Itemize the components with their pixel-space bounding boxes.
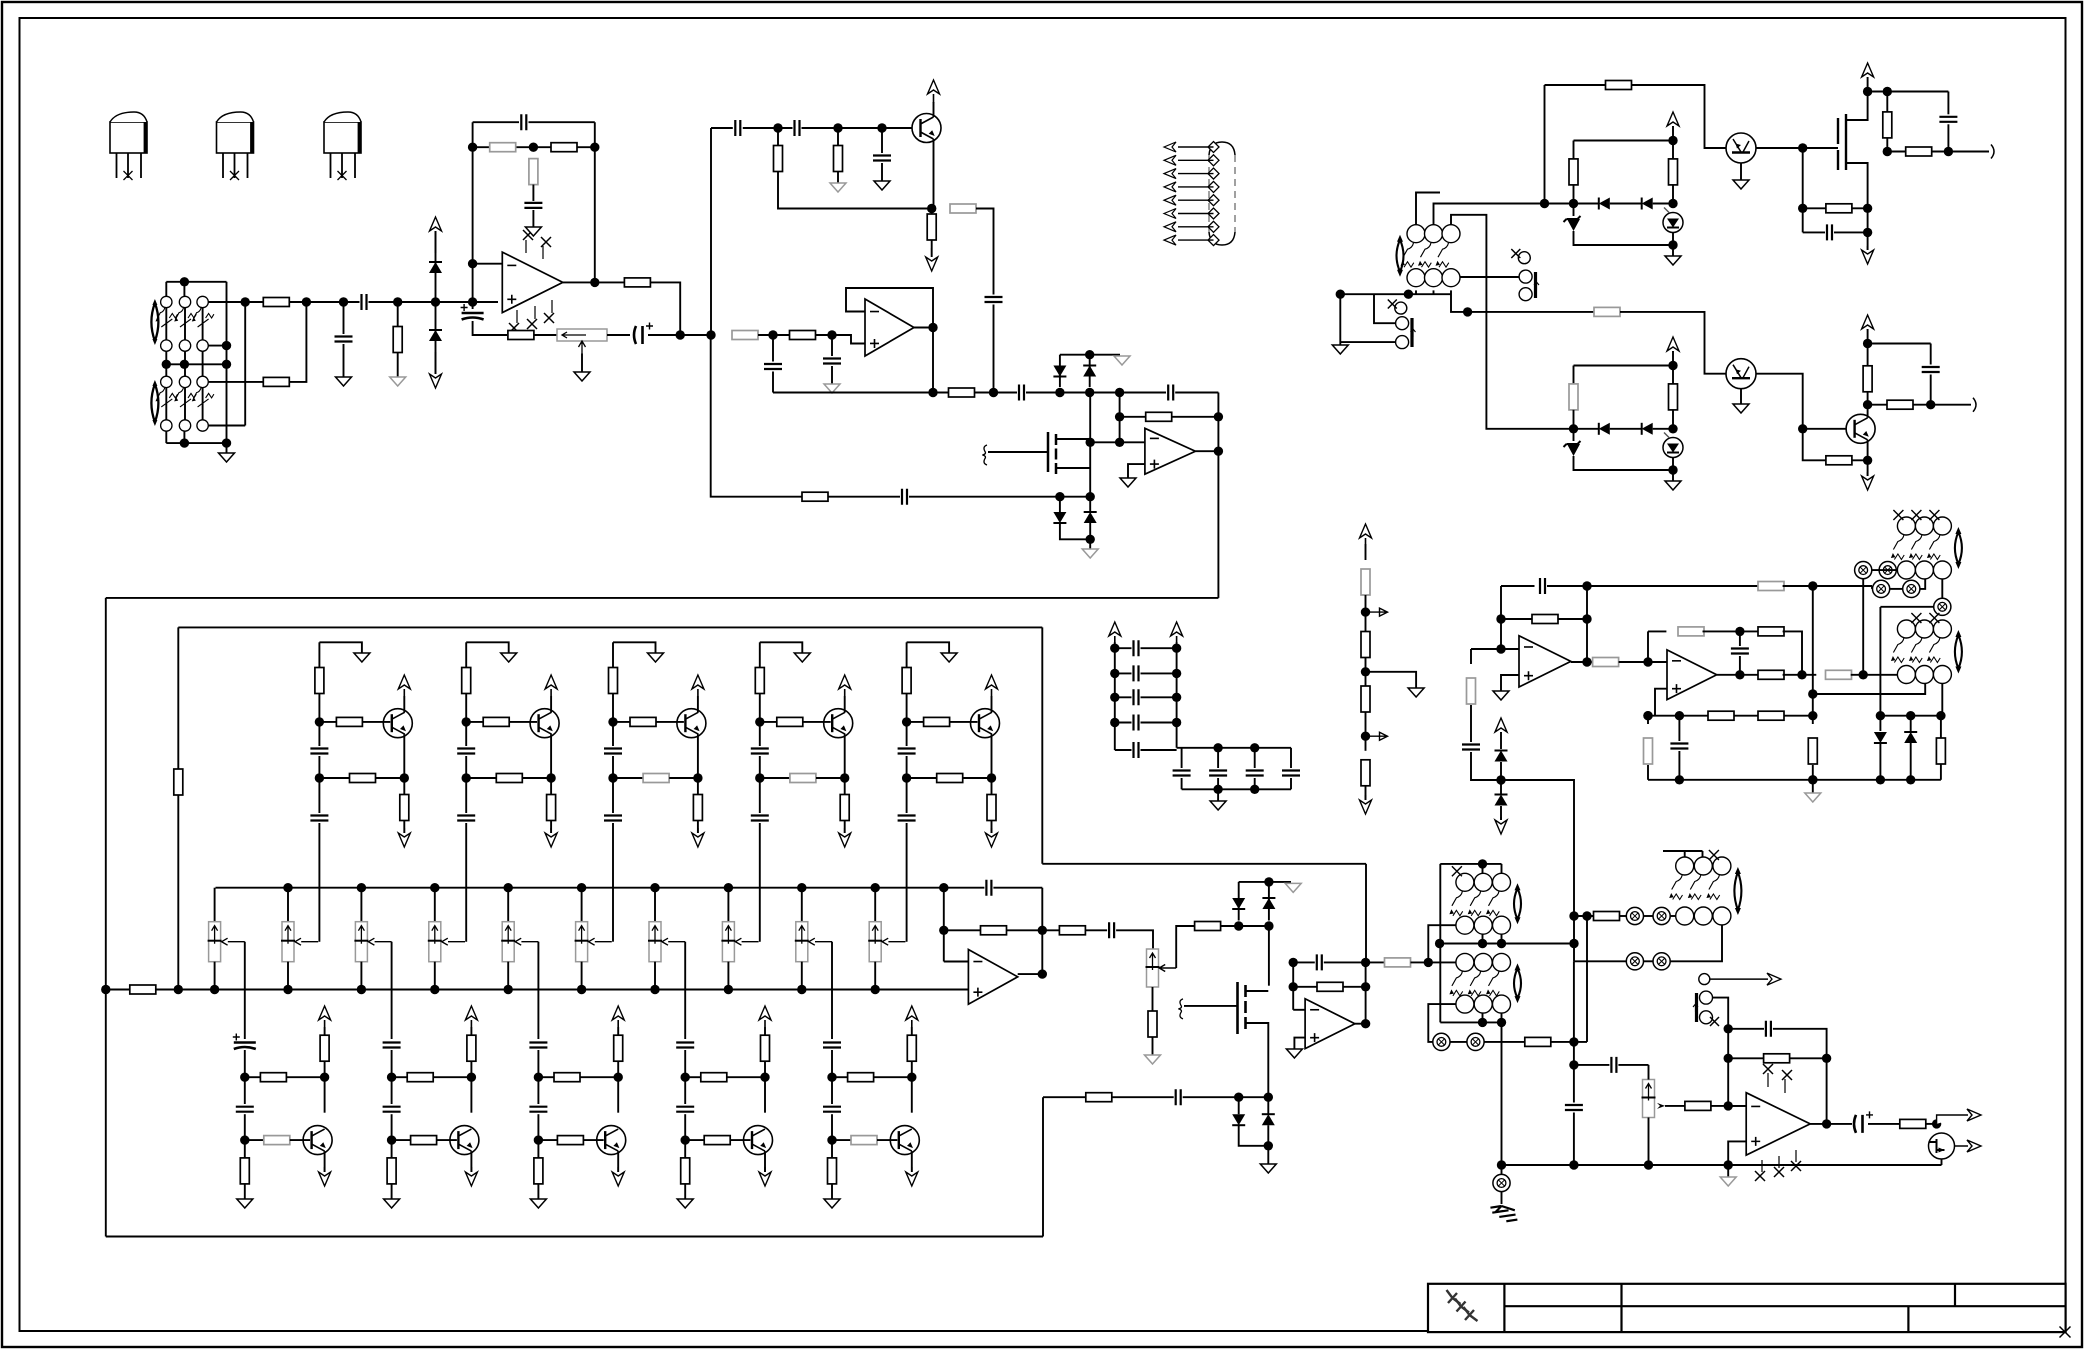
diode D5: [1053, 522, 1066, 524]
wire: [324, 1151, 326, 1172]
wire: [403, 821, 405, 834]
junction J41: [1214, 447, 1223, 456]
wire: [906, 756, 908, 813]
wire: [1812, 780, 1814, 793]
wire: [1246, 1023, 1269, 1097]
junction J163: [1478, 1018, 1487, 1027]
capacitor C12: [1019, 385, 1024, 401]
junction J73: [827, 1135, 836, 1144]
resistor R51: [1525, 1037, 1551, 1046]
wire: [360, 888, 362, 922]
wire: [1678, 751, 1680, 780]
switch contact SC12: [197, 420, 208, 431]
power arrow +V: [1672, 126, 1674, 127]
wire: [844, 821, 846, 834]
power arrow -V: [1867, 472, 1869, 476]
capacitor CT2a: [457, 749, 475, 754]
wire: [360, 962, 362, 990]
resistor R45: [1708, 711, 1734, 720]
wire: [435, 231, 437, 302]
junction J108: [1463, 307, 1472, 316]
wire: [522, 777, 551, 779]
junction J85: [1361, 1019, 1370, 1028]
wire T-cell 2 top: [466, 642, 509, 653]
wire: [1090, 392, 1166, 394]
wire: [465, 694, 467, 747]
wire rail: [1114, 642, 1116, 750]
diode D4: [1083, 365, 1096, 367]
wire: [1932, 151, 1989, 153]
junction J32: [1085, 350, 1094, 359]
wire: [324, 1027, 326, 1035]
wire: [1471, 648, 1501, 650]
wire: [226, 443, 228, 453]
wire: [1041, 888, 1043, 974]
wire: [1416, 193, 1440, 225]
no-connect x: [544, 313, 554, 323]
wire: [1740, 389, 1742, 404]
wire: [550, 734, 552, 794]
resistor RT4b: [777, 717, 803, 726]
resistor RB2b: [411, 1136, 437, 1145]
power arrow -V: [550, 828, 552, 833]
wire: [991, 696, 993, 712]
ground: [1733, 180, 1749, 189]
jack contact: [1934, 598, 1951, 615]
power arrow +V: [435, 231, 437, 253]
capacitor C2: [362, 294, 367, 310]
wire: [837, 172, 839, 184]
wire: [1717, 674, 1760, 676]
wire: [759, 756, 761, 813]
power arrow +V: [991, 689, 993, 696]
resistor RB5a: [848, 1073, 874, 1082]
wire: [844, 696, 846, 712]
jack contact: [1626, 907, 1643, 924]
junction J114: [1569, 424, 1578, 433]
ground: [824, 1199, 840, 1208]
potentiometer VR6: [502, 922, 514, 962]
wire rail: [1176, 642, 1178, 748]
transistor Q5: [1846, 414, 1875, 443]
wire: [433, 1076, 471, 1078]
ground: [794, 653, 810, 662]
junction J11: [393, 297, 402, 306]
junction J97: [1172, 718, 1181, 727]
junction J96: [1110, 718, 1119, 727]
junction top bus 7: [724, 883, 733, 892]
wire: [1728, 1105, 1746, 1107]
wire: [1365, 595, 1367, 632]
wire: [803, 721, 831, 723]
capacitor C10: [764, 364, 782, 369]
junction J161: [1478, 939, 1487, 948]
title block: [1428, 1284, 2066, 1332]
junction J59: [240, 1073, 249, 1082]
wire: [933, 139, 935, 209]
wire: [1267, 1097, 1269, 1114]
resistor RT2d: [547, 795, 556, 821]
wire: [397, 353, 399, 378]
wire U4 inv: [1293, 1009, 1305, 1011]
wire: [403, 696, 405, 712]
wire: [654, 962, 656, 990]
junction J9: [302, 297, 311, 306]
wire: [1500, 762, 1502, 794]
junction J8: [241, 297, 250, 306]
junction J37: [1115, 438, 1124, 447]
capacitor CT2b: [457, 816, 475, 821]
junction J34: [1086, 492, 1095, 501]
junction J53: [755, 717, 764, 726]
wire: [1728, 1028, 1764, 1030]
wire: [727, 1076, 765, 1078]
resistor RB4d: [761, 1035, 770, 1061]
resistor R28: [1669, 159, 1678, 185]
resistor RB5b: [851, 1136, 877, 1145]
junction J23: [877, 123, 886, 132]
wire: [931, 240, 933, 257]
wire: [831, 1114, 833, 1158]
junction J22: [833, 123, 842, 132]
junction bottom bus 5: [577, 985, 586, 994]
wire: [831, 1050, 833, 1104]
wire: [1810, 1123, 1826, 1125]
junction J15: [468, 143, 477, 152]
wire: [1773, 1029, 1827, 1059]
wire: [1434, 204, 1545, 225]
capacitor Cd722: [1134, 715, 1139, 731]
junction J12: [431, 297, 440, 306]
junction J80: [1264, 877, 1273, 886]
wire jack J1 feed: [1460, 276, 1519, 278]
wire: [1586, 586, 1588, 662]
capacitor C20: [1922, 367, 1940, 372]
capacitor C28 polarized: [1854, 1115, 1863, 1133]
transistor package P3: [324, 122, 361, 153]
wire: [1115, 749, 1132, 751]
power arrow +V: [933, 94, 935, 103]
no-connect x: [1710, 1017, 1719, 1026]
wire: [685, 1139, 704, 1141]
capacitor CB3b: [529, 1107, 547, 1112]
resistor R40: [1593, 658, 1619, 667]
junction J5: [180, 438, 189, 447]
resistor RT3c: [643, 774, 669, 783]
wire: [1007, 929, 1043, 931]
resistor RT1b: [336, 717, 362, 726]
wire: [1501, 618, 1532, 620]
resistor R12: [950, 204, 976, 213]
junction J123: [1798, 204, 1807, 213]
wire: [1089, 393, 1091, 497]
resistor R56: [802, 492, 828, 501]
junction J166: [1582, 911, 1591, 920]
junction J139: [1735, 627, 1744, 636]
wire: [828, 496, 900, 498]
wire: [1571, 661, 1587, 663]
wire: [1573, 1113, 1575, 1166]
ground: [336, 377, 352, 386]
wire: [1056, 438, 1090, 440]
wire: [764, 1061, 766, 1113]
junction J43: [174, 985, 183, 994]
wire col link: [184, 351, 186, 376]
gate stub: [1178, 999, 1183, 1019]
zener ZD2: [1564, 441, 1581, 447]
switch lever SL2: [176, 308, 196, 319]
wire: [1217, 748, 1219, 768]
wire: [907, 777, 937, 779]
resistor R14: [790, 331, 816, 340]
wire wiper riser: [318, 823, 320, 942]
resistor R31: [1883, 112, 1892, 138]
junction J141: [1797, 670, 1806, 679]
wire: [1175, 392, 1218, 394]
ground: [1805, 793, 1821, 802]
junction J106: [1336, 290, 1345, 299]
wire: [697, 734, 699, 794]
wire: [1728, 1057, 1763, 1059]
wire: [1501, 1013, 1503, 1022]
wire: [758, 334, 790, 336]
junction J68: [681, 1073, 690, 1082]
wire: [1501, 864, 1503, 873]
power arrow -V: [617, 1167, 619, 1172]
wire: [773, 392, 949, 394]
wire: [1728, 1141, 1746, 1165]
resistor RB4c: [681, 1158, 690, 1184]
wire: [1573, 185, 1575, 216]
wire: [1290, 778, 1292, 789]
wire: [470, 1061, 472, 1113]
resistor RB3c: [534, 1158, 543, 1184]
wire: [1868, 343, 1931, 345]
junction J177: [1497, 1160, 1506, 1169]
wire M3 gate: [1803, 147, 1838, 149]
wire: [1340, 341, 1395, 343]
power arrow -V: [1500, 817, 1502, 820]
wire: [318, 694, 320, 747]
transistor QT4: [824, 709, 853, 738]
wire: [613, 721, 630, 723]
junction J17: [590, 143, 599, 152]
wire: [976, 209, 994, 295]
diode D18: [1904, 731, 1917, 733]
wire: [832, 1076, 848, 1078]
wire: [1610, 203, 1642, 205]
wire: [1803, 429, 1826, 461]
jack J1 nc circle: [1518, 252, 1530, 264]
power arrow +V: [697, 689, 699, 696]
junction J174: [1569, 1160, 1578, 1169]
wire: [209, 381, 264, 383]
capacitor CT3a: [604, 749, 622, 754]
wire: [537, 1114, 539, 1158]
wire: [607, 334, 630, 336]
wire: [1672, 233, 1674, 246]
wire: [950, 721, 978, 723]
junction J79: [1264, 921, 1273, 930]
wire: [403, 734, 405, 794]
wire: [1482, 864, 1484, 873]
resistor R34: [1594, 307, 1620, 316]
jack contact: [1653, 953, 1670, 970]
resistor R48: [1808, 738, 1817, 764]
wire: [1783, 674, 1817, 676]
resistor R13: [732, 331, 758, 340]
wire: [245, 1139, 264, 1141]
wire: [1152, 1037, 1154, 1055]
wire: [1879, 743, 1881, 780]
wire: [529, 121, 595, 123]
junction J64: [387, 1135, 396, 1144]
junction J111: [1668, 199, 1677, 208]
wire: [287, 888, 289, 922]
wire: [1644, 915, 1653, 917]
capacitor C14: [986, 880, 991, 896]
potentiometer VR9: [722, 922, 734, 962]
wire: [1365, 544, 1367, 560]
wire: [1018, 973, 1043, 975]
resistor RB5c: [828, 1158, 837, 1184]
resistor R44: [1826, 670, 1852, 679]
capacitor Cd673: [1134, 665, 1139, 681]
junction J72: [907, 1073, 916, 1082]
capacitor Ce1291: [1282, 771, 1300, 776]
resistor R9: [774, 146, 783, 172]
potentiometer VR2: [209, 922, 221, 962]
wire U3 inv: [1090, 441, 1145, 443]
wire: [778, 172, 929, 209]
junction J175: [1644, 1160, 1653, 1169]
wire: [1485, 1041, 1525, 1043]
wire: [777, 128, 779, 146]
no-connect x: [1763, 1064, 1773, 1074]
wire: [434, 888, 436, 922]
wire: [1926, 1123, 1937, 1125]
capacitor C15: [1109, 922, 1114, 938]
wire: [1834, 231, 1868, 233]
resistor RB4b: [704, 1136, 730, 1145]
wire: [1684, 851, 1686, 857]
wire: [343, 344, 345, 377]
wire: [1644, 960, 1653, 962]
VR12 wiper: [1159, 965, 1176, 972]
resistor R42: [1758, 627, 1784, 636]
wire: [1026, 392, 1090, 394]
wire: [914, 327, 933, 329]
wire: [1620, 312, 1726, 374]
junction J14: [468, 259, 477, 268]
junction J35: [1086, 438, 1095, 447]
wire: [1846, 163, 1868, 208]
wire: [369, 301, 499, 303]
resistor RT4c: [790, 774, 816, 783]
output arrow 2: [1955, 1140, 1982, 1152]
wire: [435, 302, 437, 374]
output arrow: [1937, 1109, 1981, 1124]
wire: [1740, 163, 1742, 180]
junction J28: [928, 388, 937, 397]
wire: [684, 1184, 686, 1199]
wire: [1573, 961, 1575, 1062]
power arrow +V: [550, 689, 552, 696]
junction J70: [681, 1135, 690, 1144]
junction J113: [1668, 361, 1677, 370]
wire: [1501, 780, 1574, 961]
capacitor CB5b: [823, 1107, 841, 1112]
wire: [1941, 1159, 1943, 1165]
switch bracket: [151, 384, 158, 422]
wire: [1501, 1022, 1503, 1165]
ground: [1408, 688, 1424, 697]
resistor R50: [1936, 738, 1945, 764]
resistor Rb4: [1361, 760, 1370, 786]
wire: [1268, 882, 1270, 921]
wire: [244, 1114, 246, 1158]
wire T-cell 5 top: [907, 642, 950, 653]
wire: [1867, 392, 1869, 405]
wire: [1544, 85, 1546, 204]
junction J134: [1582, 581, 1591, 590]
wire: [1672, 458, 1674, 471]
wire: [1195, 450, 1218, 452]
resistor R52: [1594, 912, 1620, 921]
wire: [909, 496, 1090, 498]
no-connect x: [509, 323, 519, 333]
wire: [1867, 329, 1869, 344]
junction J137: [1569, 939, 1578, 948]
VR5 wiper: [442, 938, 465, 945]
resistor R38: [1532, 615, 1558, 624]
wire: [1221, 925, 1269, 927]
wire: [1851, 674, 1898, 676]
VR7 wiper: [589, 938, 612, 945]
wire: [1739, 631, 1741, 646]
wire: [1574, 960, 1626, 962]
resistor Rb2: [1361, 632, 1370, 658]
power arrow -V: [324, 1167, 326, 1172]
wire: [906, 694, 908, 747]
wire: [802, 127, 913, 129]
wire: [1482, 934, 1484, 943]
power arrow -V: [931, 248, 933, 257]
wire: [1343, 986, 1366, 988]
resistor R6: [529, 159, 538, 185]
wire M2 gate: [1184, 1005, 1238, 1007]
power arrow +V: [617, 1020, 619, 1027]
resistor R5: [551, 143, 577, 152]
power arrow -V: [435, 352, 437, 374]
wire: [1366, 672, 1417, 688]
wire: [397, 302, 399, 327]
wire: [1290, 748, 1292, 768]
wire: [208, 301, 263, 303]
wire: [1059, 497, 1061, 512]
wire: [1501, 934, 1503, 943]
wire: [656, 721, 684, 723]
junction J61: [240, 1135, 249, 1144]
wire: [391, 1114, 393, 1158]
wire: [1803, 207, 1826, 209]
junction J31: [1085, 388, 1094, 397]
junction J101: [1250, 785, 1259, 794]
wire: [1501, 1192, 1503, 1204]
wire: [1254, 748, 1256, 768]
wire: [1267, 1146, 1269, 1164]
wire: [1886, 138, 1888, 152]
